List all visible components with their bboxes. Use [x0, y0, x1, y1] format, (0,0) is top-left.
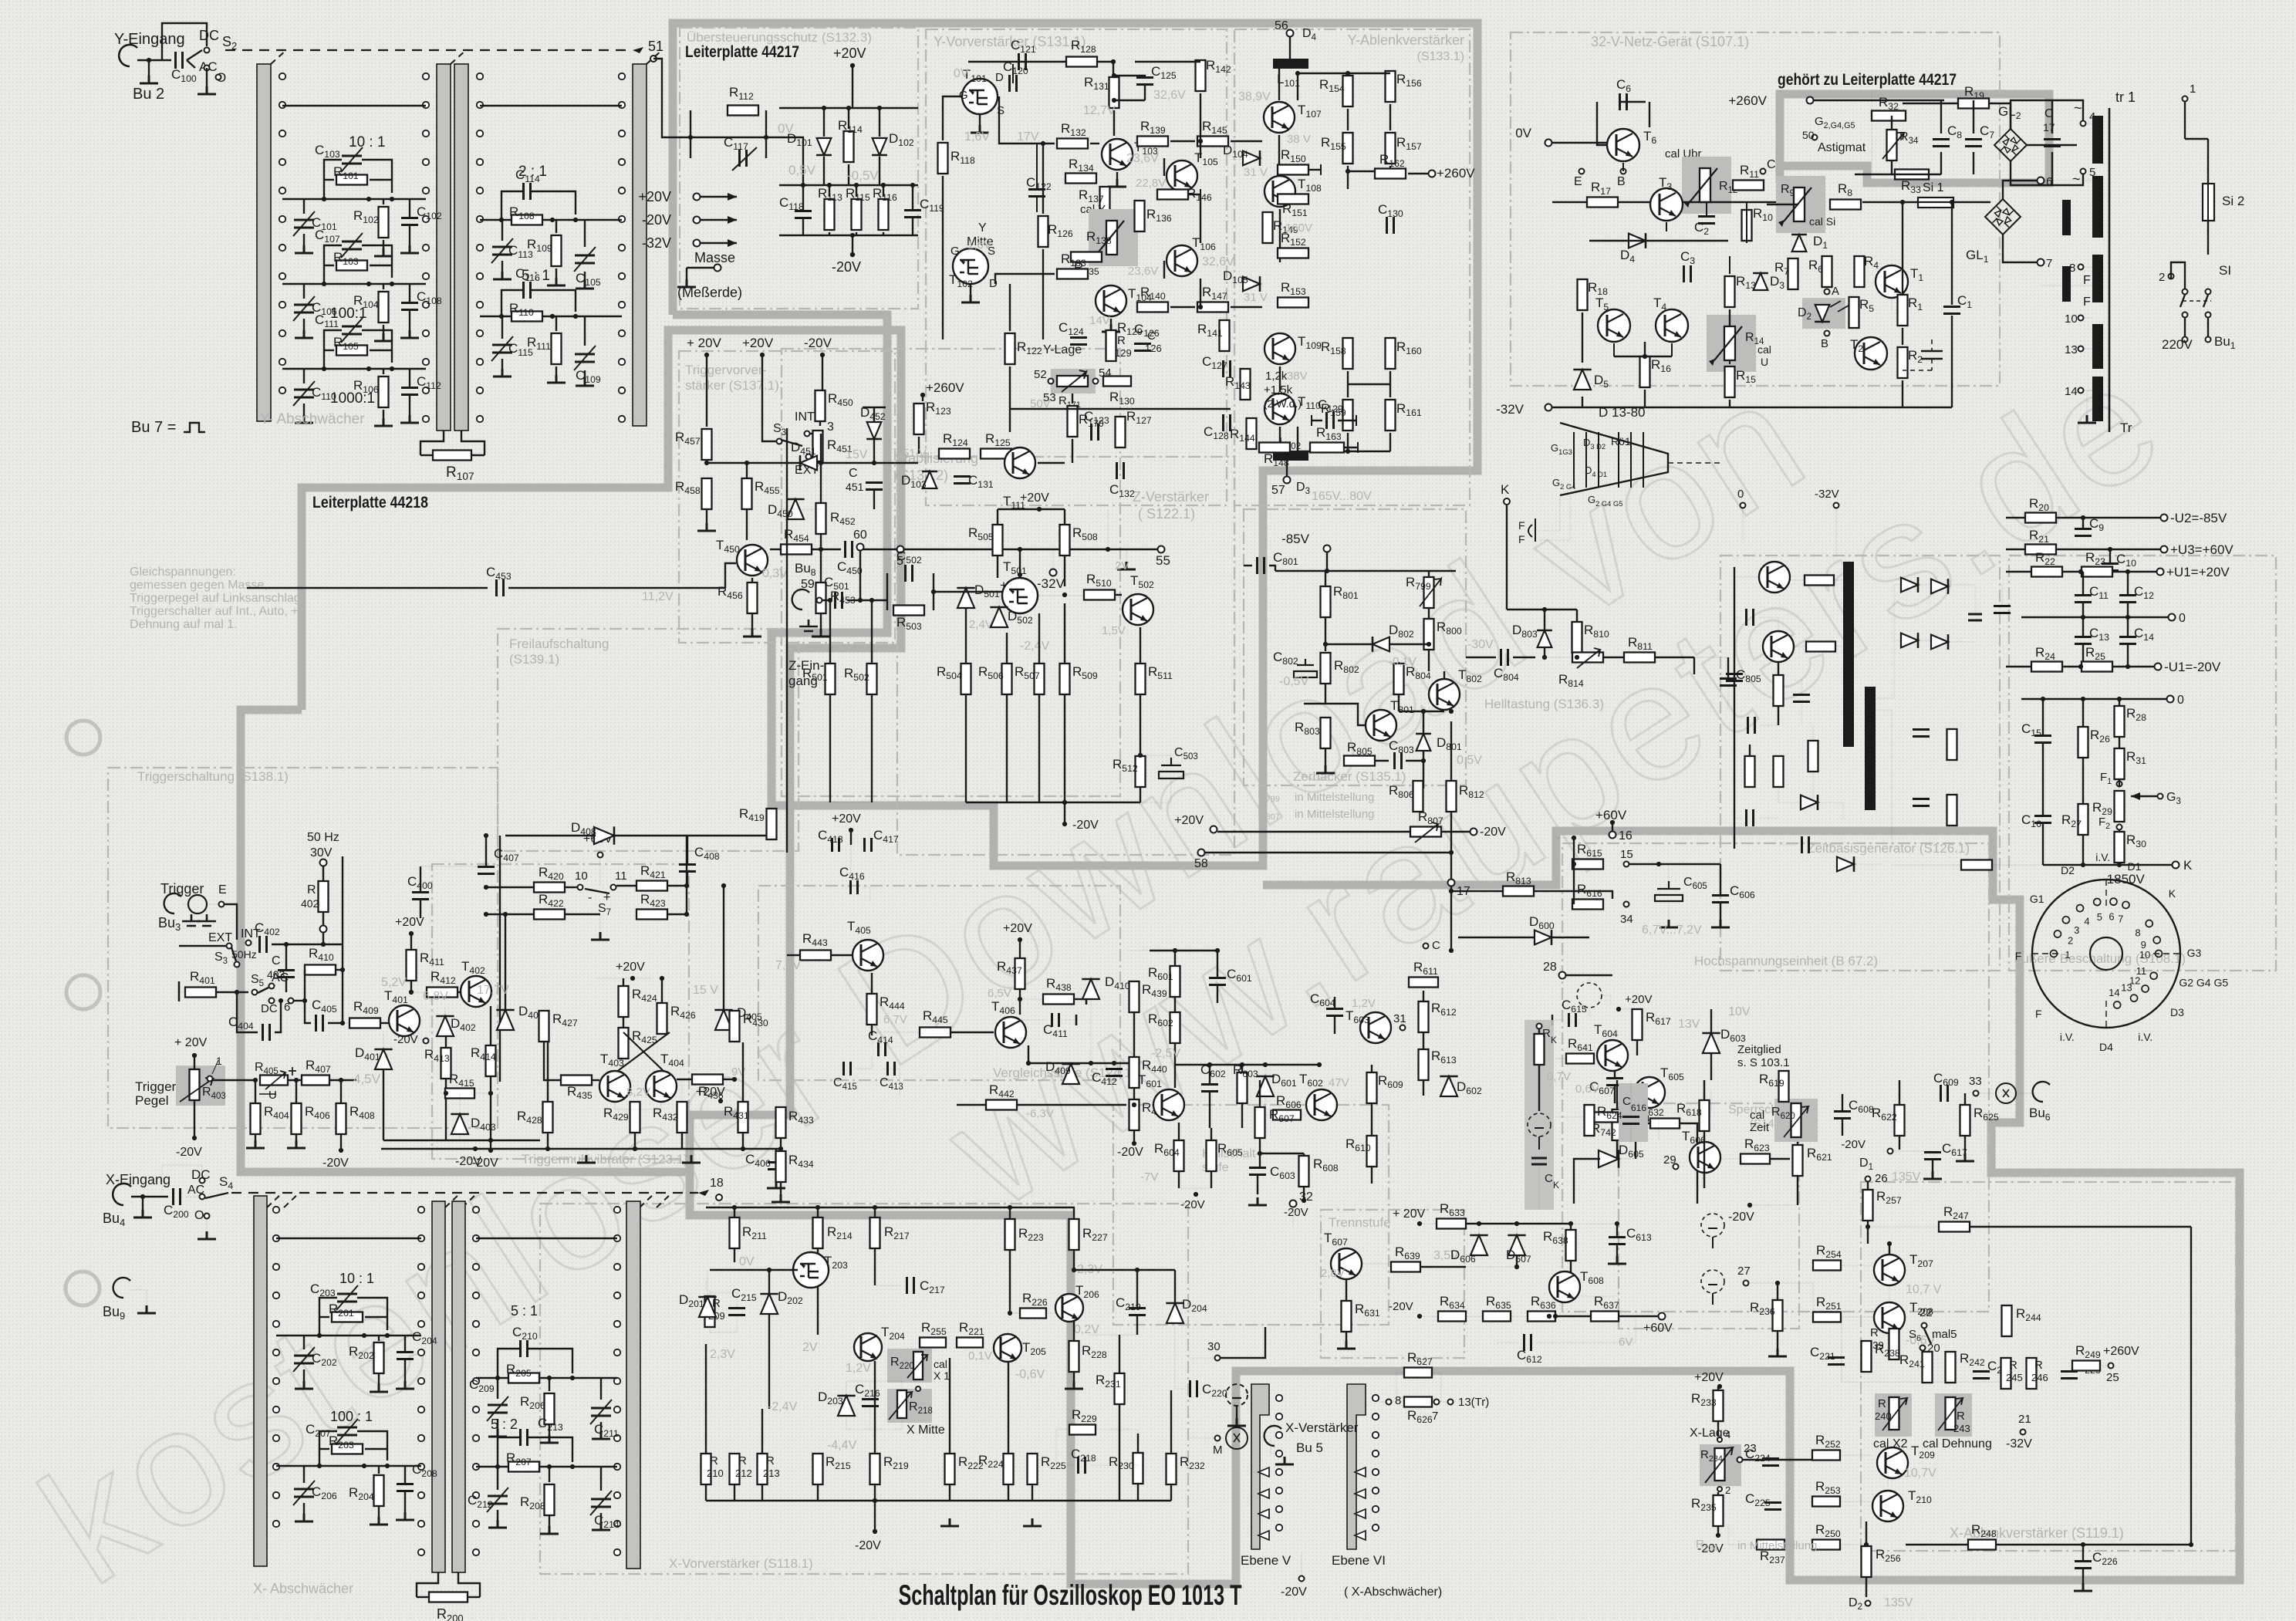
- resistor R249: [2072, 1361, 2100, 1371]
- terminal: [1400, 1025, 1406, 1031]
- resistor R415: [445, 1089, 474, 1099]
- svg-text:-85V: -85V: [1281, 532, 1310, 546]
- resistor: [1887, 130, 1897, 160]
- wire: [1649, 102, 1650, 127]
- junction: [1132, 1141, 1136, 1146]
- wire: [1289, 36, 1291, 59]
- resistor hv4: [1745, 756, 1755, 787]
- wire: [1399, 711, 1444, 712]
- wire: [458, 1572, 480, 1597]
- junction: [1449, 889, 1454, 893]
- junction: [2108, 547, 2112, 552]
- wire: [1538, 1029, 1540, 1033]
- wire: [1951, 316, 1953, 407]
- resistor R505: [993, 525, 1003, 556]
- resistor R10: [1742, 210, 1752, 241]
- svg-text:gehört zu Leiterplatte 44217: gehört zu Leiterplatte 44217: [1778, 71, 1957, 89]
- wire: [255, 1135, 256, 1140]
- junction: [279, 998, 283, 1003]
- terminal: [1423, 944, 1429, 949]
- svg-text:R: R: [2034, 1359, 2043, 1372]
- terminal: [2117, 825, 2122, 830]
- switch contact: [473, 1349, 479, 1356]
- wire: [1818, 802, 1843, 819]
- svg-text:55: 55: [1156, 553, 1170, 568]
- wire: [1706, 202, 1707, 216]
- resistor R454: [781, 545, 812, 555]
- junction: [850, 233, 855, 238]
- resistor R111: [552, 333, 562, 364]
- wire long vertical upper: [342, 856, 343, 944]
- terminal: [2078, 265, 2084, 270]
- wire: [1616, 1244, 1618, 1256]
- junction: [801, 183, 805, 187]
- svg-text:32,6V: 32,6V: [1202, 255, 1234, 268]
- ground: [576, 281, 594, 289]
- svg-text:50: 50: [1802, 129, 1815, 141]
- wire 58 rail: [1205, 852, 1451, 853]
- connector Bu8: [792, 589, 809, 610]
- wire: [1086, 994, 1088, 1005]
- wire: [846, 1381, 902, 1389]
- wire: [288, 1079, 302, 1081]
- wire: [859, 550, 861, 600]
- block X-Ablenkverstärker: [1861, 1182, 2236, 1551]
- junction: [1449, 850, 1454, 855]
- junction: [827, 183, 832, 187]
- svg-text:F: F: [1518, 519, 1525, 532]
- resistor R413: [441, 1048, 451, 1079]
- wire z bottom: [830, 802, 872, 803]
- ground: [772, 1194, 790, 1202]
- capacitor C609: [1941, 1085, 1948, 1102]
- wire: [275, 1001, 281, 1032]
- switch contact: [418, 1521, 424, 1527]
- wire: [1303, 1153, 1305, 1155]
- junction: [444, 1091, 448, 1096]
- wire: [1703, 1080, 1705, 1099]
- ground: [767, 1180, 785, 1188]
- switch contact: [423, 159, 429, 165]
- wire: [1136, 1270, 1138, 1308]
- wire: [2057, 549, 2160, 550]
- wire: [863, 407, 886, 409]
- svg-text:C: C: [1767, 158, 1776, 171]
- wire: [370, 265, 392, 266]
- svg-text:R: R: [1542, 1027, 1551, 1040]
- wire: [1451, 890, 1502, 892]
- transistor T110: [1264, 393, 1295, 424]
- wire: [549, 1425, 550, 1435]
- terminal: [1093, 379, 1099, 384]
- ground: [592, 1431, 610, 1439]
- resistor R443: [800, 951, 831, 961]
- svg-text:Bu 5: Bu 5: [1296, 1440, 1323, 1455]
- terminal: [1920, 1346, 1926, 1351]
- wire: [1636, 1008, 1638, 1009]
- transistor T603: [1360, 1012, 1391, 1043]
- terminal: [2183, 96, 2188, 102]
- wire: [2127, 603, 2129, 617]
- wire: [2082, 603, 2084, 617]
- wire: [303, 234, 305, 245]
- terminal: [1741, 503, 1746, 508]
- resistor: [1410, 827, 1441, 837]
- resistor R602: [1170, 1012, 1180, 1043]
- terminal: [1807, 97, 1814, 104]
- resistor R228: [1069, 1341, 1079, 1372]
- block Trennstufe: [1321, 1210, 1464, 1358]
- wire E to S3: [225, 904, 237, 940]
- wire: [1301, 1114, 1306, 1116]
- junction: [1775, 1281, 1780, 1285]
- resistor R402: [319, 881, 329, 912]
- resistor R456: [748, 583, 758, 613]
- capacitor C7: [1965, 140, 1982, 147]
- junction: [872, 461, 876, 465]
- switch contact: [418, 1321, 424, 1327]
- diode: [1815, 305, 1830, 322]
- svg-text:52: 52: [1034, 368, 1047, 381]
- wire: [1010, 1312, 1020, 1314]
- ground: [547, 375, 566, 383]
- ground: [591, 932, 609, 940]
- wire: [142, 1197, 143, 1210]
- resistor R254: [1813, 1261, 1841, 1271]
- wire: [1009, 1207, 1011, 1218]
- wire: [1899, 1136, 1900, 1150]
- diode D401: [374, 1049, 392, 1069]
- switch contact: [279, 273, 285, 279]
- junction: [1106, 547, 1110, 552]
- resistor R245: [2001, 1358, 2011, 1389]
- diode D103: [922, 471, 937, 488]
- wire: [1777, 1332, 1778, 1349]
- wire: [378, 1507, 380, 1517]
- wire: [370, 350, 392, 351]
- wire: [875, 1285, 902, 1286]
- wire: [1728, 1524, 1757, 1545]
- wire T105 e: [1200, 194, 1201, 243]
- resistor R152: [1278, 248, 1308, 258]
- wire xv bottom rail: [706, 1500, 1171, 1501]
- capacitor C613: [1609, 1238, 1626, 1244]
- terminal: [1429, 171, 1436, 177]
- resistor R232: [1167, 1454, 1177, 1484]
- terminal: [235, 962, 240, 968]
- wire psu rail1: [1552, 201, 1798, 203]
- svg-text:K: K: [1553, 1180, 1559, 1190]
- junction: [1887, 1241, 1892, 1246]
- wire: [1614, 356, 1672, 357]
- crt pin 3: [2062, 917, 2069, 924]
- svg-text:-20V: -20V: [642, 212, 671, 228]
- wire: [1116, 594, 1122, 596]
- wire: [817, 1485, 819, 1501]
- resistor R611: [1409, 978, 1438, 988]
- switch contact: [273, 1464, 279, 1470]
- wire: [303, 319, 305, 330]
- junction: [317, 1333, 322, 1338]
- resistor R140: [1137, 302, 1168, 312]
- terminal: [269, 984, 275, 989]
- resistor R11: [1733, 181, 1764, 191]
- terminal: [1761, 169, 1766, 174]
- resistor R508: [1060, 525, 1070, 556]
- wire: [383, 284, 384, 289]
- capacitor C803: [1395, 752, 1402, 769]
- svg-text:cal: cal: [934, 1358, 947, 1370]
- svg-text:+ 20V: + 20V: [1393, 1207, 1426, 1221]
- junction: [778, 1147, 783, 1151]
- svg-text:5 : 2: 5 : 2: [491, 1417, 518, 1432]
- resistor R134: [1065, 174, 1096, 184]
- svg-text:33: 33: [1969, 1075, 1982, 1088]
- svg-text:-7V: -7V: [1140, 1170, 1158, 1184]
- crt pin 8: [2146, 920, 2152, 927]
- wire: [615, 1102, 635, 1109]
- svg-text:INT: INT: [795, 410, 815, 424]
- switch contact: [279, 73, 285, 79]
- svg-text:31 V: 31 V: [1244, 291, 1268, 304]
- wire: [1113, 75, 1115, 76]
- wire: [497, 1510, 498, 1520]
- wire: [1729, 309, 1730, 326]
- svg-text:1,6V: 1,6V: [967, 238, 991, 252]
- wire: [584, 316, 586, 346]
- capacitor: [1913, 799, 1930, 806]
- junction: [1111, 59, 1116, 64]
- svg-text:+U3=+60V: +U3=+60V: [2170, 542, 2234, 557]
- svg-text:28: 28: [1543, 961, 1557, 974]
- wire: [383, 199, 384, 204]
- wire: [820, 434, 822, 503]
- wire: [1304, 703, 1325, 704]
- capacitor C218: [1079, 1457, 1086, 1474]
- wire: [1312, 420, 1322, 421]
- resistor hv3: [1774, 675, 1784, 706]
- terminal: [1050, 569, 1057, 576]
- wire: [1423, 1033, 1424, 1049]
- terminal: [2183, 289, 2188, 295]
- resistor R163: [1310, 443, 1344, 453]
- wire: [1356, 415, 1357, 426]
- wire: [2113, 666, 2154, 667]
- wire: [1075, 998, 1086, 1000]
- resistor R7: [1788, 258, 1798, 289]
- wire: [850, 830, 852, 845]
- wire: [951, 1032, 994, 1033]
- wire: [820, 535, 822, 588]
- wire: [459, 1093, 461, 1115]
- ground: [1956, 1153, 1974, 1161]
- svg-text:0,3V: 0,3V: [762, 567, 788, 580]
- switch contact: [477, 216, 483, 222]
- wire: [191, 909, 192, 914]
- trimmer capacitor C110: [294, 390, 314, 397]
- wire: [852, 235, 853, 255]
- wire: [584, 220, 586, 247]
- wire: [1278, 69, 1280, 100]
- resistor R211: [730, 1217, 740, 1248]
- wire: [1835, 646, 1843, 647]
- svg-text:X-Verstärker: X-Verstärker: [1285, 1420, 1359, 1435]
- wire T105 in: [1163, 158, 1165, 176]
- svg-text:4: 4: [2084, 916, 2089, 927]
- capacitor C607: [1606, 1079, 1623, 1086]
- junction: [1427, 642, 1431, 647]
- wire: [965, 608, 967, 626]
- terminal: [1717, 1487, 1722, 1491]
- switch contact: [423, 302, 429, 308]
- capacitor C210: [521, 1340, 528, 1357]
- diode: [1901, 577, 1918, 593]
- ground: [1660, 920, 1678, 927]
- ground: [198, 86, 216, 94]
- svg-text:-32V: -32V: [1815, 488, 1839, 501]
- diode D101: [816, 138, 832, 155]
- switch contact: [619, 359, 625, 365]
- wire: [486, 886, 533, 888]
- wire: [378, 1466, 380, 1474]
- dashed circles: [1701, 1214, 1724, 1237]
- svg-text:2: 2: [2159, 271, 2165, 284]
- resistor R436: [692, 1075, 723, 1085]
- wire: [1136, 1315, 1138, 1335]
- wire: [599, 914, 601, 930]
- wire: [1973, 152, 1974, 174]
- wire: [1140, 627, 1141, 663]
- ground: [370, 1517, 388, 1525]
- terminal: [1659, 1313, 1666, 1320]
- svg-text:213: 213: [763, 1467, 780, 1479]
- capacitor C617: [1924, 1153, 1941, 1160]
- junction: [192, 1136, 197, 1140]
- resistor R412: [427, 988, 458, 998]
- wire: [1064, 802, 1065, 824]
- capacitor C117: [740, 150, 747, 167]
- resistor R414: [486, 1045, 496, 1076]
- wire: [616, 885, 636, 886]
- resistor R33: [1895, 170, 1929, 180]
- resistor R616: [1572, 900, 1603, 910]
- transistor T401: [389, 1005, 420, 1036]
- svg-text:0: 0: [1737, 488, 1744, 501]
- svg-text:2: 2: [1725, 1484, 1730, 1496]
- wire: [687, 835, 772, 836]
- capacitor C118: [795, 211, 812, 218]
- switch contact: [473, 1378, 479, 1384]
- wire: [206, 68, 208, 86]
- capacitor C124: [1070, 338, 1087, 345]
- transistor T502: [1123, 594, 1153, 625]
- capacitor C112: [401, 388, 418, 395]
- wire: [599, 858, 601, 886]
- resistor R608: [1299, 1156, 1309, 1187]
- svg-text:i.V.: i.V.: [2138, 1031, 2152, 1043]
- wire: [547, 1042, 549, 1101]
- wire to T108: [1231, 140, 1262, 142]
- junction: [1542, 655, 1547, 660]
- svg-text:Si 1: Si 1: [1923, 181, 1944, 194]
- terminal: [1448, 880, 1455, 886]
- wire: [1346, 1332, 1347, 1341]
- svg-text:+20V: +20V: [833, 46, 866, 61]
- ground: [246, 1140, 265, 1148]
- ground: [1117, 562, 1136, 569]
- resistor R32: [1872, 111, 1906, 121]
- resistor R421: [636, 881, 667, 891]
- wire: [340, 1135, 342, 1148]
- wire: [2084, 390, 2092, 391]
- junction: [1132, 1103, 1136, 1107]
- resistor R423: [636, 910, 667, 920]
- resistor R4: [1855, 256, 1865, 287]
- wire: [1195, 1188, 1197, 1194]
- junction: [920, 393, 925, 397]
- wire: [1389, 104, 1391, 130]
- resistor R104: [379, 292, 389, 323]
- terminal: [2078, 346, 2084, 352]
- input stub: [178, 981, 181, 1001]
- wire: [420, 900, 421, 918]
- fet T102: [953, 248, 988, 284]
- wire dashed wafer tap: [271, 50, 286, 64]
- wire: [381, 1022, 390, 1024]
- resistor R509: [1060, 664, 1070, 694]
- capacitor C222: [1973, 1372, 1990, 1379]
- switch contact: [423, 187, 429, 194]
- junction: [1258, 1151, 1262, 1156]
- wire zb rail: [1175, 1064, 1319, 1065]
- terminal: [1210, 826, 1217, 833]
- switch contact: [619, 273, 625, 279]
- wire: [1717, 1492, 1719, 1494]
- resistor R144: [1247, 418, 1257, 449]
- wire: [848, 164, 849, 185]
- wire: [1622, 163, 1624, 171]
- switch contact: [418, 1235, 424, 1241]
- wire GL1 bottom: [2003, 235, 2037, 262]
- svg-text:3: 3: [2074, 924, 2079, 936]
- wire uebersteuerung mid rail: [779, 184, 918, 186]
- wire D4 rail: [1589, 240, 1728, 241]
- resistor R438: [1043, 995, 1074, 1005]
- wire: [1834, 579, 1843, 581]
- svg-text:U: U: [268, 1089, 277, 1102]
- svg-text:Triggerschaltung (S138.1): Triggerschaltung (S138.1): [137, 769, 289, 784]
- svg-text:gemessen gegen Masse,: gemessen gegen Masse,: [130, 579, 268, 592]
- wire: [1717, 1422, 1719, 1437]
- wire: [1170, 1485, 1172, 1501]
- svg-text:+ 20V: + 20V: [687, 336, 722, 350]
- wire: [1668, 864, 1670, 881]
- transistor T404: [646, 1071, 677, 1102]
- wire: [485, 836, 487, 866]
- wire: [829, 232, 830, 235]
- switch contact: [423, 73, 429, 79]
- switch contact: [473, 1292, 479, 1298]
- svg-text:K: K: [1501, 482, 1510, 497]
- wire: [1357, 442, 1359, 453]
- wire: [420, 866, 486, 867]
- wire: [1841, 1317, 1842, 1382]
- wire: [949, 1358, 950, 1453]
- wire: [1018, 1104, 1126, 1106]
- junction: [1325, 569, 1329, 573]
- diode D600: [1535, 930, 1551, 945]
- wire: [1217, 951, 1218, 978]
